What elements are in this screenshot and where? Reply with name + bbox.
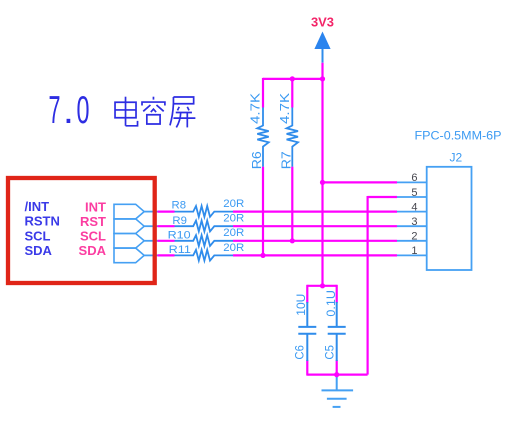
svg-text:R6: R6 (249, 151, 264, 169)
svg-text:FPC-0.5MM-6P: FPC-0.5MM-6P (415, 128, 502, 142)
svg-text:R8: R8 (172, 200, 187, 212)
wire R9 to connector (233, 225, 397, 227)
svg-text:20R: 20R (223, 227, 244, 239)
resistor R11 (175, 250, 234, 261)
svg-text:4.7K: 4.7K (248, 93, 263, 124)
svg-text:SCL: SCL (25, 228, 51, 243)
wire R6 upper (262, 78, 264, 108)
wire port to R11 (158, 254, 175, 256)
hanzi 电 (115, 97, 138, 126)
svg-text:0: 0 (77, 89, 90, 132)
port INT (114, 204, 144, 219)
svg-text:0.1U: 0.1U (324, 290, 338, 317)
wire pin6 3V3 (323, 181, 398, 183)
connector J2 body (427, 167, 472, 270)
svg-text:SDA: SDA (25, 243, 53, 258)
junction dot main-pin6 (320, 180, 325, 185)
svg-text:/INT: /INT (25, 199, 50, 214)
red annotation box (8, 178, 155, 283)
port SDA (114, 248, 144, 263)
svg-text:6: 6 (411, 172, 417, 184)
wire R7 upper (291, 78, 293, 108)
svg-text:7: 7 (49, 89, 61, 132)
wire top rail to pullups (263, 78, 323, 80)
wire C5 top (336, 285, 338, 303)
wire C6 top (306, 285, 308, 303)
resistor R8 (175, 206, 234, 217)
junction dot R7-SCL (290, 238, 295, 243)
wire port to R8 (158, 211, 175, 213)
ground (322, 375, 354, 407)
svg-text:20R: 20R (223, 242, 244, 254)
svg-text:.: . (63, 89, 74, 132)
resistor R7 (287, 108, 298, 167)
svg-text:SDA: SDA (79, 243, 107, 258)
title 7.0 电容屏 (49, 89, 90, 132)
svg-text:C5: C5 (323, 345, 337, 360)
wire R6 lower (262, 167, 264, 256)
wire port to R9 (158, 225, 175, 227)
wire capacitor top rail (307, 285, 336, 287)
wire R7 lower (291, 167, 293, 241)
resistor R10 (175, 235, 234, 246)
wire pin5 vertical to ground rail (367, 196, 369, 375)
svg-text:4.7K: 4.7K (277, 93, 292, 124)
svg-text:3V3: 3V3 (311, 15, 334, 30)
svg-text:R9: R9 (172, 215, 187, 227)
capacitor C6 (298, 302, 316, 361)
resistor R9 (175, 221, 234, 232)
svg-text:2: 2 (411, 231, 417, 243)
wire capacitor bottom rail (307, 374, 367, 376)
svg-text:INT: INT (85, 199, 106, 214)
junction dot C5-groundrail (334, 372, 339, 377)
port SCL (114, 234, 144, 249)
svg-text:10U: 10U (294, 294, 308, 316)
capacitor C5 (328, 302, 346, 361)
svg-text:4: 4 (411, 201, 417, 213)
svg-text:R7: R7 (278, 151, 293, 169)
power flag 3V3 triangle (314, 32, 330, 50)
wire R8 to connector (233, 211, 397, 213)
svg-text:20R: 20R (223, 213, 244, 225)
wire pin5 horizontal (368, 196, 397, 198)
hanzi 容 (142, 97, 165, 124)
port lead stubs (144, 212, 157, 256)
svg-text:RSTN: RSTN (25, 214, 60, 229)
svg-text:SCL: SCL (80, 229, 106, 244)
svg-text:3: 3 (411, 216, 417, 228)
junction dot main-captop (320, 283, 325, 288)
power flag stem (blue lead) (322, 49, 324, 63)
junction dot rail-R7 (290, 76, 295, 81)
svg-text:RST: RST (80, 214, 106, 229)
wire 3V3 vertical main (321, 63, 323, 286)
wire R10 to connector (233, 240, 397, 242)
resistor R6 (257, 108, 268, 167)
junction dot R6-SDA (260, 253, 265, 258)
svg-text:1: 1 (411, 245, 417, 257)
wire C6 bottom (306, 360, 308, 376)
svg-text:C6: C6 (293, 345, 307, 360)
svg-text:R10: R10 (168, 230, 191, 242)
wire C5 bottom (336, 360, 338, 376)
wire R11 to connector (233, 254, 397, 256)
svg-text:R11: R11 (169, 244, 191, 256)
connector J2 stubs (397, 182, 427, 255)
junction dot rail-main (320, 76, 325, 81)
svg-text:5: 5 (411, 187, 417, 199)
hanzi 屏 (170, 97, 195, 127)
svg-text:20R: 20R (223, 198, 244, 210)
svg-text:J2: J2 (450, 150, 463, 164)
wire port to R10 (158, 240, 175, 242)
port RST (114, 219, 144, 234)
